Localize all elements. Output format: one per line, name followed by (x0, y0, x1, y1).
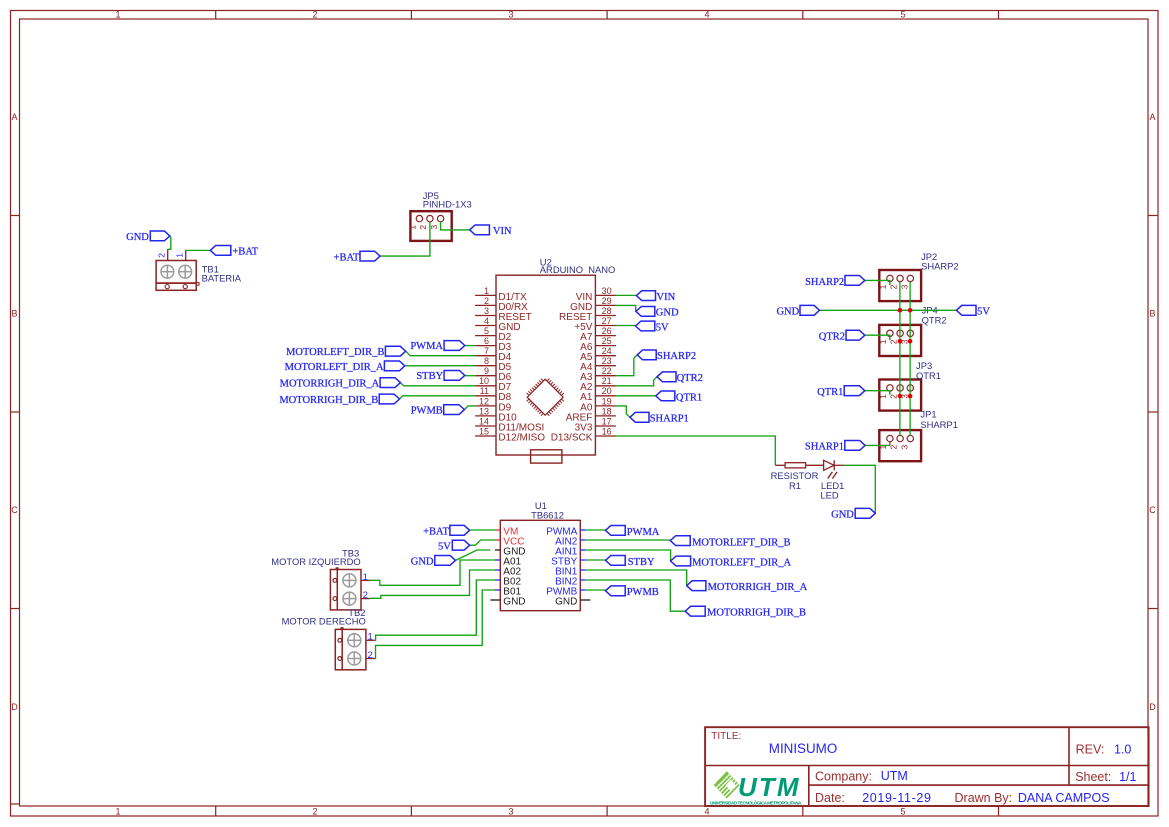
svg-text:1: 1 (484, 286, 489, 296)
net flag PWMB (U1) (606, 586, 626, 596)
svg-text:QTR1: QTR1 (916, 370, 941, 381)
wire MOTORRIGH_DIR_B to U2 pin11 (400, 396, 476, 399)
svg-text:GND: GND (555, 596, 577, 607)
U2 pin 8 stub (475, 365, 496, 367)
U2 pin 7 stub (475, 355, 496, 357)
svg-text:24: 24 (602, 346, 612, 356)
svg-text:27: 27 (602, 316, 612, 326)
svg-text:2: 2 (363, 590, 368, 601)
svg-text:D13/SCK: D13/SCK (551, 432, 593, 443)
svg-text:PINHD-1X3: PINHD-1X3 (423, 199, 472, 210)
TB1 screw terminal 1 (161, 265, 174, 278)
wire U1 PWMB to PWMB (585, 589, 605, 591)
svg-text:QTR2: QTR2 (819, 332, 845, 343)
svg-text:7: 7 (484, 346, 489, 356)
U2 pin 30 stub (595, 294, 616, 296)
svg-text:C: C (11, 505, 18, 515)
svg-text:C: C (1149, 505, 1156, 515)
svg-text:+BAT: +BAT (232, 247, 258, 258)
net flag STBY (U1) (606, 556, 626, 566)
wire U1 AIN2 to MOTORLEFT_DIR_B (585, 539, 670, 541)
frame row ticks left (11, 215, 20, 217)
svg-text:VIN: VIN (657, 292, 676, 303)
svg-text:+BAT: +BAT (423, 526, 449, 537)
TB1 pin 2 stub (167, 249, 169, 260)
net flag SHARP2 (JP2) (845, 276, 865, 286)
junction dots inside JP4 (898, 339, 903, 344)
wire MOTORLEFT_DIR_A to U2 pin8 (405, 365, 475, 367)
ground flag GND (rail) (800, 305, 820, 315)
svg-text:15: 15 (479, 426, 489, 436)
net flag PWMB (U2) (444, 405, 465, 415)
U1 pin PWMA stub (580, 529, 585, 531)
wire U1 STBY to STBY (585, 559, 605, 561)
svg-text:2: 2 (312, 10, 317, 20)
svg-text:3: 3 (508, 807, 513, 817)
U2 pin 22 stub (595, 375, 616, 377)
ground flag GND (U1) (435, 556, 456, 566)
svg-text:SHARP2: SHARP2 (657, 351, 696, 362)
net flag MOTORLEFT_DIR_B (U1) (670, 536, 690, 546)
U2 pin 24 stub (595, 355, 616, 357)
svg-text:3: 3 (508, 10, 513, 20)
U2 pin 10 stub (475, 385, 496, 387)
svg-text:9: 9 (484, 366, 489, 376)
net flag MOTORLEFT_DIR_A (U2) (384, 361, 404, 371)
svg-text:1: 1 (175, 253, 185, 258)
net flag PWMA (U1) (606, 526, 626, 536)
svg-text:SHARP1: SHARP1 (805, 442, 844, 453)
svg-text:5: 5 (484, 326, 489, 336)
net flag STBY (U2) (444, 371, 465, 381)
wire U2 pin27 to 5V (616, 325, 636, 327)
svg-text:SHARP2: SHARP2 (921, 260, 959, 271)
ground flag GND (TB1) (150, 231, 170, 241)
svg-text:D: D (11, 702, 18, 712)
U2 pin 21 stub (595, 385, 616, 387)
U2 pin 25 stub (595, 345, 616, 347)
supply flag +BAT (JP5) (360, 251, 380, 261)
svg-text:LED: LED (820, 489, 838, 500)
wire U1 PWMA to PWMA (585, 529, 605, 531)
U1 pin STBY stub (580, 559, 585, 561)
svg-text:MOTORLEFT_DIR_A: MOTORLEFT_DIR_A (285, 362, 384, 373)
U1 pin GND stub (495, 549, 500, 551)
U1 pin BIN2 stub (580, 579, 585, 581)
U1 pin B02 stub (495, 579, 500, 581)
svg-text:5V: 5V (438, 541, 451, 552)
svg-text:1: 1 (878, 394, 888, 399)
svg-text:TB6612: TB6612 (531, 509, 564, 520)
svg-text:2: 2 (312, 807, 317, 817)
U2 pin 14 stub (475, 425, 496, 427)
net flag MOTORLEFT_DIR_B (U2) (385, 346, 405, 356)
wire GND / 5V rail (820, 309, 957, 311)
svg-text:REV:: REV: (1076, 743, 1105, 757)
svg-text:SHARP1: SHARP1 (650, 414, 689, 425)
wire U2 pin21 to QTR2 (616, 377, 657, 386)
svg-text:4: 4 (484, 316, 489, 326)
net flag MOTORRIGH_DIR_B (U1) (685, 606, 705, 616)
U1 pin VM stub (495, 529, 500, 531)
TB2 pin stubs (366, 639, 375, 641)
ground flag GND (U2) (636, 307, 655, 317)
svg-text:16: 16 (602, 426, 612, 436)
connector JP1 SHARP1 (879, 430, 921, 461)
junction dots inside JP3 (898, 394, 903, 399)
wire +BAT to U1 VM (470, 529, 495, 531)
svg-text:17: 17 (602, 416, 612, 426)
U1 pin BIN1 stub (580, 569, 585, 571)
svg-text:D: D (1149, 702, 1156, 712)
svg-text:QTR2: QTR2 (677, 373, 703, 384)
svg-text:PWMA: PWMA (627, 527, 660, 538)
svg-text:MOTORRIGH_DIR_B: MOTORRIGH_DIR_B (707, 607, 806, 618)
U2 pin 11 stub (475, 395, 496, 397)
supply flag +BAT (TB1) (210, 246, 231, 256)
U2 pin 27 stub (595, 325, 616, 327)
svg-text:QTR1: QTR1 (676, 392, 702, 403)
svg-text:23: 23 (602, 356, 612, 366)
wire STBY to U2 pin9 (465, 375, 475, 377)
svg-text:1: 1 (878, 284, 888, 289)
svg-text:1: 1 (115, 807, 120, 817)
wire JP5 pin3 to VIN (441, 222, 470, 230)
svg-text:13: 13 (479, 406, 489, 416)
U1 pin A01 stub (495, 559, 500, 561)
wire +BAT to TB1 pin1 (186, 249, 211, 251)
TB3 screw terminal 2 (343, 592, 356, 605)
connector TB1 BATERIA (156, 261, 196, 284)
U2 pin 26 stub (595, 335, 616, 337)
svg-text:22: 22 (602, 366, 612, 376)
wire PWMA to U2 pin6 (465, 345, 475, 347)
TB1 screw terminal 2 (179, 265, 192, 278)
svg-text:+BAT: +BAT (334, 252, 360, 263)
U2 pin 29 stub (595, 304, 616, 306)
JP5 pin 2 circle (427, 215, 433, 221)
svg-text:VIN: VIN (493, 226, 512, 237)
svg-text:GND: GND (831, 510, 854, 521)
svg-text:1: 1 (115, 10, 120, 20)
QFP chip symbol inside U2 (527, 379, 563, 415)
wire LED1 to GND (845, 465, 876, 513)
TB1 pin 1 stub (185, 250, 187, 260)
svg-text:28: 28 (602, 306, 612, 316)
svg-text:SHARP2: SHARP2 (805, 277, 844, 288)
net flag QTR1 (U2) (656, 391, 675, 401)
svg-text:ARDUINO_NANO: ARDUINO_NANO (540, 264, 616, 275)
svg-text:MOTOR DERECHO: MOTOR DERECHO (282, 615, 366, 626)
JP4 pin1 stub (889, 337, 891, 341)
svg-text:TITLE:: TITLE: (711, 731, 741, 742)
net flag MOTORRIGH_DIR_A (U2) (380, 378, 400, 388)
svg-text:MOTORRIGH_DIR_A: MOTORRIGH_DIR_A (708, 582, 808, 593)
wire U1 AIN1 to MOTORLEFT_DIR_A (585, 550, 670, 561)
svg-text:Sheet:: Sheet: (1075, 770, 1111, 784)
frame column ticks top (215, 11, 217, 20)
net flag QTR1 (JP3) (844, 386, 865, 396)
U2 pin 16 stub (595, 435, 616, 437)
wire bus column pin3 (JP2-JP1) (909, 282, 911, 436)
U1 pin B01 stub (495, 589, 500, 591)
wire U1 B01 to TB2 pin2 (375, 590, 495, 658)
wire QTR1 to JP3 pin1 (865, 391, 890, 395)
connector JP4 QTR2 (879, 325, 921, 356)
JP1 pin1 stub (889, 442, 891, 446)
net flag QTR2 (U2) (657, 372, 676, 382)
title block frame (705, 727, 1149, 806)
TB3 screw terminal 1 (343, 574, 356, 587)
U1 pin AIN2 stub (580, 539, 585, 541)
svg-text:Company:: Company: (815, 770, 872, 784)
supply flag +BAT (U1) (450, 525, 470, 535)
wire JP5 pin2 to +BAT (380, 222, 430, 256)
U2 pin 18 stub (595, 415, 616, 417)
svg-text:D12/MISO: D12/MISO (498, 432, 545, 443)
wire MOTORLEFT_DIR_B to U2 pin7 (406, 351, 475, 356)
supply flag 5V (rail) (956, 305, 976, 315)
U1 pin VCC stub (495, 539, 500, 541)
net flag MOTORRIGH_DIR_A (U1) (687, 581, 706, 591)
svg-text:UTM: UTM (881, 769, 908, 783)
U2 pin 3 stub (475, 315, 496, 317)
net flag MOTORLEFT_DIR_A (U1) (671, 556, 691, 566)
svg-text:1: 1 (408, 225, 418, 230)
svg-text:PWMB: PWMB (627, 587, 659, 598)
connector JP2 SHARP2 (879, 270, 921, 301)
U1 pin A02 stub (495, 569, 500, 571)
JP5 pin 1 circle (416, 215, 422, 221)
connector JP3 QTR1 (879, 380, 921, 411)
op IC U1 TB6612 body (500, 520, 580, 610)
svg-text:B: B (11, 309, 17, 319)
svg-text:MOTORLEFT_DIR_B: MOTORLEFT_DIR_B (692, 537, 790, 548)
U2 pin 2 stub (475, 304, 496, 306)
U2 pin 19 stub (595, 405, 616, 407)
svg-text:DANA CAMPOS: DANA CAMPOS (1018, 791, 1110, 805)
svg-text:BATERIA: BATERIA (202, 273, 242, 284)
svg-text:14: 14 (479, 416, 489, 426)
svg-text:30: 30 (602, 286, 612, 296)
svg-text:SHARP1: SHARP1 (920, 419, 958, 430)
JP3 pin1 stub (889, 391, 891, 395)
svg-text:A: A (11, 112, 17, 122)
wire U2 pin22 to SHARP2 (616, 355, 637, 376)
wire MOTORRIGH_DIR_A to U2 pin10 (400, 383, 475, 386)
svg-text:2019-11-29: 2019-11-29 (862, 791, 931, 805)
svg-text:GND: GND (656, 308, 679, 319)
TB2 screw terminal 2 (348, 652, 361, 665)
svg-text:MOTORLEFT_DIR_B: MOTORLEFT_DIR_B (286, 347, 384, 358)
net flag VIN (U2) (636, 291, 655, 301)
svg-text:GND: GND (126, 232, 149, 243)
svg-text:10: 10 (479, 376, 489, 386)
frame column ticks bottom (215, 806, 217, 816)
svg-text:QTR1: QTR1 (817, 387, 843, 398)
wire GND to TB1 pin2 (168, 236, 171, 249)
U2 pin 15 stub (475, 435, 496, 437)
junction dots on rail (898, 308, 903, 313)
net flag MOTORRIGH_DIR_B (U2) (379, 394, 399, 404)
net flag QTR2 (JP4) (846, 330, 865, 340)
JP5 pin 3 circle (437, 215, 443, 221)
resistor R1 (775, 464, 785, 466)
connector JP5 PINHD-1X3 (410, 211, 451, 241)
svg-text:3: 3 (484, 306, 489, 316)
svg-text:MINISUMO: MINISUMO (769, 741, 837, 756)
svg-text:GND: GND (776, 307, 799, 318)
svg-text:1: 1 (878, 339, 888, 344)
svg-text:5V: 5V (977, 307, 990, 318)
U2 pin 20 stub (595, 395, 616, 397)
supply flag 5V (U2) (636, 321, 655, 331)
svg-text:21: 21 (602, 376, 612, 386)
wire GND to U1 GND (456, 550, 491, 560)
wire U1 BIN1 to MOTORRIGH_DIR_A (585, 570, 686, 586)
svg-text:2: 2 (157, 253, 167, 258)
svg-text:1: 1 (363, 572, 368, 583)
svg-text:R1: R1 (789, 480, 801, 491)
svg-text:2: 2 (418, 225, 428, 230)
svg-text:5: 5 (900, 807, 905, 817)
wire QTR2 to JP4 pin1 (865, 335, 890, 339)
svg-text:UNIVERSIDAD TECNOLÓGICA METROP: UNIVERSIDAD TECNOLÓGICA METROPOLITANA (710, 799, 802, 806)
svg-text:PWMA: PWMA (410, 341, 443, 352)
svg-text:MOTORRIGH_DIR_A: MOTORRIGH_DIR_A (280, 379, 380, 390)
wire U2 pin20 to QTR1 (616, 395, 656, 397)
wire U2 pin19 to SHARP1 (616, 406, 630, 417)
U2 pin 9 stub (475, 375, 496, 377)
svg-text:B: B (1149, 309, 1155, 319)
connector TB3 body (330, 570, 361, 610)
svg-text:1/1: 1/1 (1119, 770, 1136, 784)
wire U2 pin29 to GND (616, 305, 636, 311)
wire 5V to U1 VCC (470, 540, 495, 545)
svg-text:3: 3 (899, 284, 909, 289)
svg-text:Date:: Date: (815, 791, 845, 805)
svg-text:4: 4 (704, 10, 709, 20)
wire U1 BIN2 to MOTORRIGH_DIR_B (585, 580, 685, 611)
op IC U2 ARDUINO_NANO body (496, 275, 595, 455)
U1 pin GND bottom-left stub (490, 599, 500, 601)
wire U1 A01 to TB3 pin1 (370, 560, 495, 585)
TB3 pin stubs (361, 579, 370, 581)
U2 pin 6 stub (475, 345, 496, 347)
svg-text:1: 1 (368, 632, 373, 643)
frame row ticks right (1148, 215, 1158, 217)
svg-text:5: 5 (900, 10, 905, 20)
UTM logo diamond (701, 767, 781, 803)
svg-text:MOTORLEFT_DIR_A: MOTORLEFT_DIR_A (692, 558, 791, 569)
svg-text:4: 4 (704, 807, 709, 817)
svg-text:Drawn By:: Drawn By: (955, 791, 1013, 805)
svg-text:2: 2 (484, 296, 489, 306)
U2 pin 12 stub (475, 405, 496, 407)
led LED1 (824, 460, 834, 470)
svg-text:19: 19 (602, 396, 612, 406)
svg-text:25: 25 (602, 336, 612, 346)
svg-text:5V: 5V (656, 322, 669, 333)
U2 pin 17 stub (595, 425, 616, 427)
svg-text:QTR2: QTR2 (922, 315, 947, 326)
svg-text:STBY: STBY (628, 557, 655, 568)
wire SHARP2 to JP2 pin1 (865, 280, 890, 284)
svg-text:MOTOR IZQUIERDO: MOTOR IZQUIERDO (271, 556, 360, 567)
wire U1 B02 to TB2 pin1 (375, 580, 495, 640)
svg-text:GND: GND (411, 557, 434, 568)
TB2 screw terminal 1 (348, 634, 361, 647)
svg-text:3: 3 (899, 445, 909, 450)
U2 pin 4 stub (475, 325, 496, 327)
U2 pin 28 stub (595, 315, 616, 317)
ground flag GND (LED1) (855, 508, 875, 518)
U1 pin AIN1 stub (580, 549, 585, 551)
svg-text:PWMB: PWMB (411, 405, 443, 416)
U1 pin GND bottom-right stub (580, 599, 590, 601)
connector TB2 body (335, 629, 366, 669)
wire U2 pin16 to resistor R1 (616, 436, 775, 465)
svg-text:18: 18 (602, 406, 612, 416)
net flag SHARP2 (U2) (637, 350, 656, 360)
net flag SHARP1 (JP1) (845, 441, 865, 451)
JP2 pin1 stub (889, 282, 891, 286)
U2 pin 13 stub (475, 415, 496, 417)
wire U2 pin30 to VIN (616, 294, 637, 296)
svg-text:20: 20 (602, 386, 612, 396)
svg-text:STBY: STBY (416, 371, 443, 382)
svg-text:A: A (1149, 112, 1155, 122)
svg-text:MOTORRIGH_DIR_B: MOTORRIGH_DIR_B (279, 395, 378, 406)
U2 pin 23 stub (595, 365, 616, 367)
wire U1 A02 to TB3 pin2 (370, 570, 495, 598)
wire PWMB to U2 pin12 (464, 406, 475, 410)
svg-text:UTM: UTM (738, 772, 801, 802)
net flag VIN (JP5) (470, 225, 490, 235)
U2 usb connector box (531, 450, 562, 463)
U2 pin 1 stub (475, 294, 496, 296)
svg-text:1.0: 1.0 (1114, 742, 1131, 756)
svg-text:8: 8 (484, 356, 489, 366)
svg-text:26: 26 (602, 326, 612, 336)
svg-text:GND: GND (503, 596, 525, 607)
svg-text:11: 11 (480, 386, 489, 396)
U2 pin 5 stub (475, 335, 496, 337)
U1 pin PWMB stub (580, 589, 585, 591)
wire SHARP1 to JP1 pin1 (865, 444, 890, 446)
net flag PWMA (U2) (444, 341, 465, 351)
svg-text:6: 6 (484, 336, 489, 346)
svg-text:29: 29 (602, 296, 612, 306)
net flag SHARP1 (U2) (630, 412, 649, 422)
svg-text:12: 12 (479, 396, 489, 406)
wire bus column pin2 (JP2-JP1) (899, 282, 901, 436)
supply flag 5V (U1) (452, 540, 469, 550)
svg-text:2: 2 (368, 650, 373, 661)
